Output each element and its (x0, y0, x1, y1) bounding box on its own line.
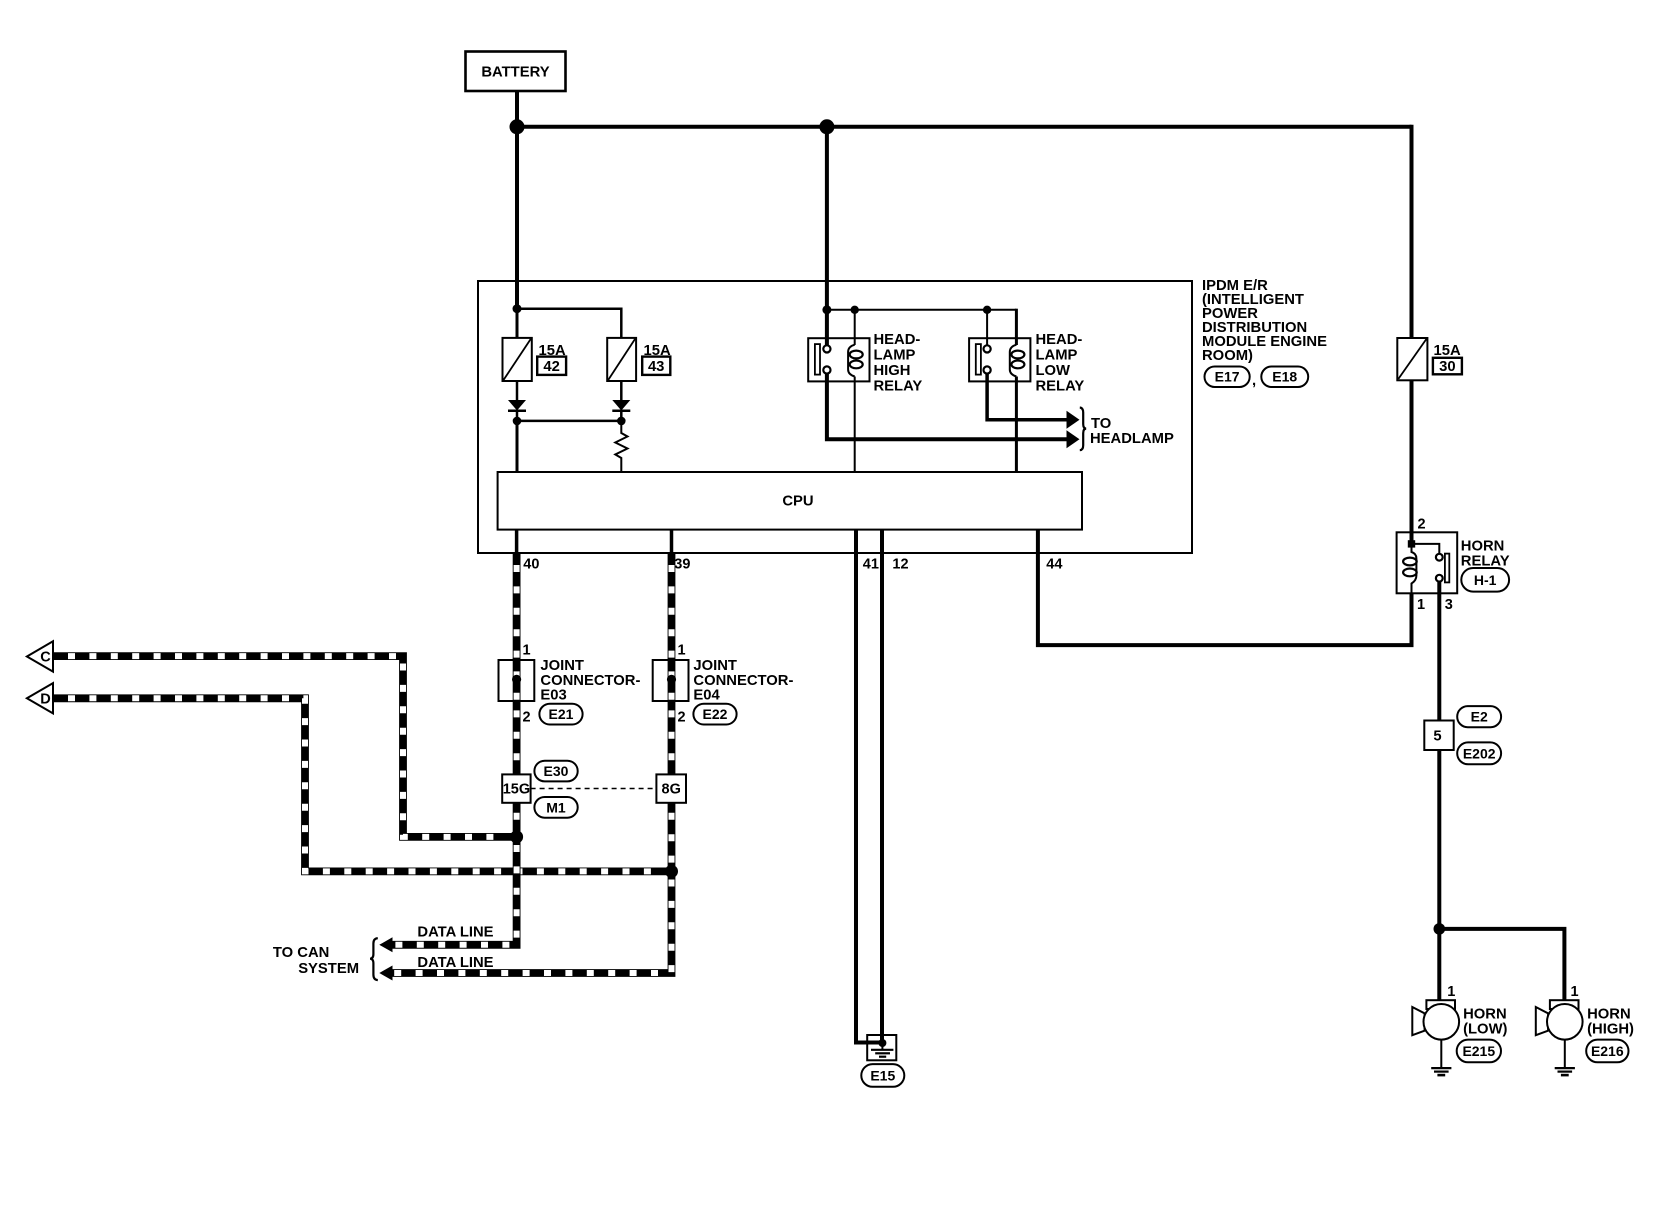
diode D2 (612, 400, 630, 411)
svg-text:3: 3 (1445, 597, 1453, 613)
wire battery to bus (515, 91, 519, 127)
svg-text:HORN: HORN (1463, 1006, 1507, 1022)
svg-text:5: 5 (1433, 729, 1441, 745)
label 43 box (642, 357, 670, 375)
svg-text:8G: 8G (662, 782, 681, 798)
svg-text:1: 1 (1417, 597, 1425, 613)
arrow to headlamp upper (1067, 411, 1080, 429)
svg-text:RELAY: RELAY (874, 379, 923, 395)
wire to low relay coil (1015, 309, 1018, 345)
wire diode D2 to junction (620, 411, 623, 421)
headlamp high relay U1 (808, 338, 869, 381)
svg-text:(HIGH): (HIGH) (1587, 1022, 1634, 1038)
pin 40 stub (515, 530, 519, 554)
svg-text:E04: E04 (693, 688, 720, 704)
svg-text:1: 1 (1447, 984, 1455, 1000)
junction node CAN-H (665, 865, 678, 878)
label to can system (273, 945, 359, 977)
CAN wire pin 39 to joint connector E04 (668, 553, 676, 659)
dashed link 15G to 8G (531, 788, 657, 790)
wire bus to high relay contact (825, 127, 829, 346)
wire main bus (517, 125, 1412, 129)
CAN wire 15G to junction (513, 803, 521, 840)
wire pin 44 to horn relay coil (1038, 553, 1412, 645)
ground horn low (1431, 1040, 1451, 1076)
junction low contact node (983, 306, 991, 314)
wire low coil to CPU (1015, 377, 1018, 474)
CAN wire D (54, 698, 672, 871)
CAN wire junction to data line 1 (392, 837, 517, 945)
svg-text:HORN: HORN (1461, 538, 1505, 554)
svg-text:1: 1 (1571, 984, 1579, 1000)
splice 8G (656, 774, 686, 802)
wire fuse 30 to horn relay (1410, 380, 1414, 544)
junction bus relay feed node (819, 119, 834, 134)
horn high (1536, 1000, 1583, 1039)
pin 41 stub (854, 530, 858, 554)
wire low relay contact to upper arrow (987, 374, 1067, 420)
headlamp relay coil bus wire (827, 309, 1017, 311)
label IPDM E/R (1202, 278, 1327, 364)
svg-text:30: 30 (1439, 359, 1455, 375)
svg-text:BATTERY: BATTERY (481, 65, 549, 81)
svg-text:CONNECTOR-: CONNECTOR- (540, 673, 640, 689)
wire high coil to CPU (854, 377, 856, 474)
wire diode D1 to junction (516, 411, 519, 421)
svg-text:E17: E17 (1215, 369, 1240, 385)
label joint connector E04 (693, 658, 793, 704)
svg-text:44: 44 (1046, 557, 1062, 573)
junction fuse feed node (513, 304, 522, 313)
connector H-1 (1461, 568, 1509, 592)
svg-text:DATA LINE: DATA LINE (417, 925, 493, 941)
connector E21 (539, 704, 582, 725)
svg-text:E15: E15 (870, 1067, 895, 1083)
label 30 box (1433, 358, 1462, 375)
label headlamp low relay (1036, 332, 1085, 395)
svg-text:E216: E216 (1591, 1043, 1624, 1059)
svg-text:LAMP: LAMP (1036, 348, 1078, 364)
label horn high (1587, 1006, 1634, 1037)
svg-text:15G: 15G (503, 782, 530, 798)
ground horn high (1555, 1040, 1575, 1076)
splice 15G (502, 774, 530, 802)
wire fuse 43 to diode (620, 381, 623, 400)
label 42 box (537, 357, 566, 375)
svg-text:TO: TO (1091, 416, 1111, 432)
svg-text:ROOM): ROOM) (1202, 348, 1253, 364)
CAN wire junction to data line 2 (392, 871, 672, 973)
arrow D (27, 683, 53, 713)
junction high coil node (851, 306, 859, 314)
pin 12 stub (880, 530, 884, 554)
svg-text:E18: E18 (1272, 369, 1297, 385)
wire bus down to fuse 30 (1410, 125, 1414, 339)
svg-text:D: D (40, 691, 50, 707)
wire pin 41 to ground (856, 553, 882, 1043)
svg-text:40: 40 (523, 557, 539, 573)
svg-text:E22: E22 (703, 706, 728, 722)
joint connector E03 (499, 658, 535, 701)
svg-text:DATA LINE: DATA LINE (417, 955, 493, 971)
svg-text:TO CAN: TO CAN (273, 945, 329, 961)
svg-text:1: 1 (678, 643, 686, 659)
joint connector E04 (653, 658, 689, 701)
connector E18 (1261, 367, 1308, 388)
svg-text:2: 2 (523, 710, 531, 726)
arrowhead data line 1 (379, 937, 392, 952)
diode D1 (508, 400, 526, 411)
svg-text:CONNECTOR-: CONNECTOR- (693, 673, 793, 689)
wire node A to CPU (516, 421, 519, 473)
svg-text:12: 12 (892, 557, 908, 573)
wire to high relay coil (854, 310, 856, 345)
connector E15 (861, 1064, 904, 1087)
wire battery branch into IPDM (515, 127, 519, 309)
svg-text:JOINT: JOINT (693, 658, 737, 674)
IPDM E/R box (478, 281, 1192, 553)
fuse 15A 30 (1397, 338, 1427, 380)
connector M1 (534, 797, 577, 818)
arrow C (27, 641, 53, 671)
junction horns node (1434, 923, 1446, 935)
junction battery bus node (510, 119, 525, 134)
wire horn relay pin 3 to horns (1437, 593, 1441, 1001)
svg-text:H-1: H-1 (1474, 572, 1497, 588)
arrowhead data line 2 (379, 966, 392, 981)
svg-text:E215: E215 (1462, 1043, 1495, 1059)
wire pin 12 to ground (880, 553, 884, 1043)
CAN wire pin 40 to joint connector E03 (513, 553, 521, 659)
wire to low relay contact (986, 310, 988, 346)
label to headlamp (1090, 416, 1174, 447)
CAN wire E04 to 8G (668, 700, 676, 775)
svg-text:HIGH: HIGH (874, 363, 911, 379)
svg-text:,: , (1252, 373, 1256, 389)
svg-text:2: 2 (1418, 517, 1426, 533)
svg-text:42: 42 (543, 359, 559, 375)
CPU U3 (498, 472, 1082, 530)
label horn low (1463, 1006, 1507, 1037)
arrow to headlamp lower (1067, 430, 1080, 448)
pin 44 stub (1036, 530, 1040, 554)
ground E15 (867, 1035, 896, 1060)
connector E215 (1457, 1040, 1501, 1063)
svg-text:HEAD-: HEAD- (874, 332, 921, 348)
label joint connector E03 (540, 658, 640, 704)
svg-text:LOW: LOW (1036, 363, 1071, 379)
svg-text:E202: E202 (1463, 745, 1496, 761)
junction diode node B (617, 417, 626, 426)
svg-text:HORN: HORN (1587, 1006, 1631, 1022)
wire fuse 42 lead (516, 309, 519, 339)
brace to can system (370, 938, 378, 980)
svg-text:RELAY: RELAY (1036, 379, 1085, 395)
svg-text:E30: E30 (544, 763, 569, 779)
connector E22 (693, 704, 736, 725)
resistor R1 (615, 421, 627, 473)
wire fuse 42 to diode (516, 381, 519, 400)
connector E202 (1457, 742, 1501, 764)
svg-text:41: 41 (863, 557, 879, 573)
svg-text:43: 43 (648, 359, 664, 375)
CAN wire 8G to junction D (668, 803, 676, 874)
svg-text:2: 2 (678, 710, 686, 726)
wire between diode junctions (517, 420, 621, 423)
svg-text:(LOW): (LOW) (1463, 1022, 1507, 1038)
connector E30 (534, 761, 577, 782)
wire to fuse 43 (517, 309, 621, 339)
wire high relay contact to lower arrow (827, 374, 1068, 440)
label horn relay (1461, 538, 1510, 569)
svg-text:JOINT: JOINT (540, 658, 584, 674)
svg-text:M1: M1 (546, 800, 566, 816)
junction diode node A (513, 417, 522, 426)
connector E17 (1205, 367, 1250, 388)
label headlamp high relay (874, 332, 923, 395)
fuse 15A 43 (607, 338, 636, 381)
CAN wire C (54, 656, 517, 837)
battery (466, 52, 566, 92)
svg-text:SYSTEM: SYSTEM (298, 961, 359, 977)
svg-text:E03: E03 (540, 688, 566, 704)
connector E216 (1586, 1040, 1628, 1063)
pin 39 stub (670, 530, 674, 554)
svg-text:C: C (40, 650, 51, 666)
CAN wire E03 to 15G (513, 700, 521, 775)
svg-text:39: 39 (674, 557, 690, 573)
svg-text:LAMP: LAMP (874, 348, 916, 364)
horn relay H-1 (1397, 532, 1458, 593)
connector E2 (1457, 706, 1501, 727)
svg-text:CPU: CPU (782, 494, 813, 510)
headlamp low relay U2 (969, 338, 1030, 381)
svg-text:HEADLAMP: HEADLAMP (1090, 431, 1174, 447)
svg-text:HEAD-: HEAD- (1036, 332, 1083, 348)
svg-text:E21: E21 (549, 706, 574, 722)
wire branch to horn high (1439, 929, 1564, 1001)
svg-text:E2: E2 (1471, 709, 1488, 725)
brace to headlamp (1080, 408, 1086, 451)
horn low (1412, 1000, 1459, 1039)
junction node CAN-L (510, 830, 523, 843)
fuse 15A 42 (503, 338, 532, 381)
junction high relay feed node (822, 305, 831, 314)
connector 5 (E2/E202) (1424, 721, 1453, 751)
svg-text:1: 1 (523, 643, 531, 659)
